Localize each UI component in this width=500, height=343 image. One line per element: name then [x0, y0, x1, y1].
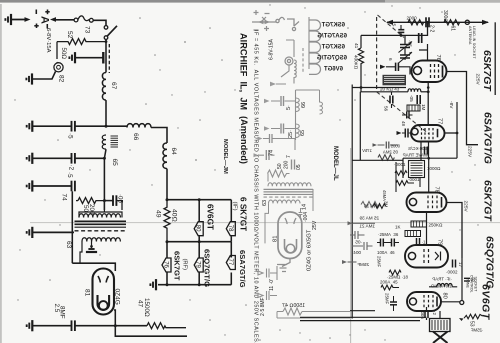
svg-text:41: 41 — [353, 43, 359, 49]
svg-text:LEAD-IN SOCKET: LEAD-IN SOCKET — [472, 26, 476, 59]
left column rails of RF section — [351, 85, 353, 319]
svg-text:64: 64 — [170, 148, 177, 156]
svg-text:78: 78 — [434, 187, 440, 193]
svg-text:79: 79 — [437, 239, 443, 245]
svg-text:45MA: 45MA — [382, 190, 387, 201]
svg-text:63: 63 — [262, 200, 268, 206]
svg-text:50: 50 — [82, 205, 89, 212]
svg-text:300Ω: 300Ω — [442, 10, 448, 22]
bleed transformer section — [263, 139, 295, 151]
cap 5 — [398, 29, 404, 31]
cap 56 — [389, 96, 391, 104]
svg-text:63: 63 — [65, 241, 72, 249]
svg-text:(RF): (RF) — [182, 259, 188, 271]
osc grid cap cluster left of tube 77 — [402, 132, 411, 134]
fuse lamp circle — [56, 42, 58, 59]
svg-text:·5: ·5 — [67, 133, 74, 139]
tube 77 — [411, 125, 445, 142]
svg-text:·25MA 36: ·25MA 36 — [378, 232, 399, 237]
svg-text:·2: ·2 — [68, 165, 75, 171]
svg-text:6SA7GT/G: 6SA7GT/G — [317, 34, 347, 40]
rail1: ground cap -5 — [27, 121, 33, 132]
svg-text:48: 48 — [401, 121, 406, 126]
svg-text:80: 80 — [442, 293, 448, 299]
svg-text:225V: 225V — [467, 146, 473, 158]
svg-text:2·2: 2·2 — [429, 25, 435, 32]
rail3: ground cap 74 — [27, 180, 33, 191]
svg-text:77: 77 — [227, 259, 233, 266]
bleed transformer wires — [265, 174, 313, 244]
wave trap bleed text — [403, 146, 428, 158]
svg-text:·02: ·02 — [471, 276, 476, 283]
svg-text:1500Ω 47: 1500Ω 47 — [282, 303, 305, 309]
svg-text:52: 52 — [66, 31, 73, 39]
resistor 41 400K vertical — [358, 35, 363, 87]
cap 0002 17 — [452, 260, 454, 268]
resistor cluster above tube 78 — [396, 181, 414, 186]
svg-text:MODEL—JL: MODEL—JL — [332, 146, 338, 181]
heater lower rail — [167, 241, 231, 243]
wire to ignition switch — [93, 20, 106, 25]
svg-text:53: 53 — [469, 321, 475, 327]
svg-text:1st AUDIO: 1st AUDIO — [430, 284, 452, 289]
svg-text:76: 76 — [162, 261, 168, 268]
lower return rail — [115, 326, 187, 337]
arrow into A left — [25, 17, 31, 22]
bleed battery cluster — [252, 17, 294, 26]
svg-text:200: 200 — [88, 204, 95, 215]
svg-text:76: 76 — [435, 55, 441, 61]
svg-text:·1: ·1 — [422, 240, 426, 245]
svg-text:05: 05 — [296, 164, 302, 170]
svg-text:6SK7GT: 6SK7GT — [482, 180, 494, 222]
battery A plus-minus marks — [34, 10, 49, 29]
tuning trimmer cluster — [404, 35, 406, 60]
svg-text:200: 200 — [284, 160, 290, 169]
svg-text:65: 65 — [300, 130, 306, 136]
heater return rail — [167, 273, 231, 285]
svg-text:-8V: -8V — [448, 101, 454, 109]
svg-text:6SA7GT/G: 6SA7GT/G — [482, 112, 494, 164]
svg-text:79: 79 — [195, 261, 201, 268]
AVC + osc return lines — [352, 87, 406, 89]
connections around tube 80 — [427, 302, 460, 320]
bottom row flags — [167, 242, 231, 258]
tube 78 — [407, 193, 447, 213]
svg-text:·25MF: ·25MF — [470, 328, 483, 333]
tube 81 to bottom rail — [114, 310, 115, 326]
svg-text:·05: ·05 — [409, 95, 414, 102]
svg-text:25MF: 25MF — [357, 262, 369, 267]
svg-text:49: 49 — [155, 210, 162, 218]
svg-text:7: 7 — [286, 155, 292, 158]
svg-text:6SK7GT: 6SK7GT — [321, 45, 345, 51]
svg-text:ANTENNA: ANTENNA — [468, 26, 472, 45]
bottom rails right — [300, 311, 427, 321]
audio line to tube 81 — [72, 263, 115, 271]
cap -05 on osc drop — [418, 33, 420, 43]
svg-text:(Amended): (Amended) — [239, 116, 249, 164]
svg-text:·004: ·004 — [303, 212, 309, 222]
tube flag 76 RF — [162, 258, 171, 272]
antenna line — [387, 21, 488, 23]
cap 05 + resistor box below avc — [416, 95, 418, 104]
svg-text:6 SK7GT: 6 SK7GT — [239, 197, 248, 231]
svg-text:1MA 21: 1MA 21 — [359, 224, 375, 229]
svg-text:11 ·0': 11 ·0' — [269, 279, 275, 291]
svg-text:74: 74 — [61, 194, 68, 202]
bleed tube names mirrored — [317, 23, 347, 73]
coil 65 with core on vertical line — [102, 135, 106, 149]
svg-text:2·5 8MF: 2·5 8MF — [260, 297, 266, 316]
svg-text:6-8V·15A: 6-8V·15A — [45, 28, 51, 53]
svg-text:·05: ·05 — [355, 240, 362, 245]
tube 77 cathode stubs — [421, 142, 429, 161]
tube flag 77 — [226, 256, 235, 270]
tube 76 — [412, 61, 447, 83]
svg-text:400KΩ: 400KΩ — [354, 55, 359, 70]
svg-text:82: 82 — [58, 75, 65, 83]
25M .18 resistor — [389, 270, 401, 275]
svg-text:5·: 5· — [391, 24, 397, 29]
svg-text:6-8V-15A: 6-8V-15A — [269, 38, 275, 60]
svg-text:73: 73 — [84, 26, 91, 34]
IF transformer 1 — [409, 161, 425, 178]
svg-text:6SQ7GT/G: 6SQ7GT/G — [317, 56, 347, 62]
wire down to resistor rail — [105, 39, 107, 41]
crossing resistors (mostly bleed mixture) — [342, 202, 380, 265]
output choke coil — [437, 284, 452, 287]
svg-text:·005: ·005 — [420, 310, 425, 319]
switch blade — [104, 36, 108, 40]
svg-text:77: 77 — [437, 118, 443, 124]
svg-text:81: 81 — [273, 236, 279, 242]
resistor boxes between 78 and 79 — [426, 212, 428, 246]
svg-text:6SQ7GT/G: 6SQ7GT/G — [484, 236, 496, 289]
RF coil hatched box — [383, 75, 407, 86]
gang dashed box — [376, 17, 378, 92]
svg-text:50Ω: 50Ω — [60, 48, 67, 60]
tube 80 — [407, 292, 441, 311]
svg-text:250KΩ: 250KΩ — [429, 223, 444, 228]
bottom rail: ground cap 25 8MF — [27, 320, 33, 331]
svg-text:6SQ7GT/G: 6SQ7GT/G — [203, 249, 212, 287]
right edge rail — [494, 22, 496, 95]
resistor 50 200ohm — [78, 198, 104, 204]
svg-text:80: 80 — [195, 225, 201, 232]
svg-text:66: 66 — [301, 102, 307, 108]
-8V label + rail x457 — [456, 102, 458, 158]
svg-text:81: 81 — [84, 289, 91, 297]
svg-text:1M: 1M — [421, 104, 426, 111]
grid cap row y66.8 — [386, 67, 410, 75]
bleed rectifier tube — [278, 212, 302, 259]
speaker transformer — [430, 319, 451, 332]
svg-text:·2: ·2 — [432, 311, 437, 315]
svg-text:100A 46: 100A 46 — [377, 250, 395, 255]
bleed cap rows — [271, 101, 296, 129]
IF stage extras — [428, 158, 430, 192]
coil 66 on rail1 going right — [106, 125, 127, 127]
svg-text:6V6GT: 6V6GT — [324, 67, 343, 73]
svg-text:66: 66 — [132, 133, 139, 141]
ground rail4 — [27, 227, 33, 238]
svg-text:25MF: 25MF — [377, 256, 382, 268]
coil 64 vertical — [163, 143, 167, 169]
svg-text:A: A — [39, 16, 51, 24]
svg-text:200A 45: 200A 45 — [380, 280, 398, 285]
svg-text:56: 56 — [384, 106, 389, 112]
resistor 52 50ohm — [57, 39, 106, 45]
svg-text:2000: 2000 — [407, 16, 418, 21]
output cap 005 — [424, 311, 426, 318]
svg-text:·5: ·5 — [66, 172, 73, 178]
svg-text:25·: 25· — [288, 130, 294, 138]
wire down from switch junction — [105, 42, 107, 73]
rail2: ground cap -2 — [27, 153, 33, 164]
svg-text:·0001: ·0001 — [408, 177, 420, 182]
tube flag 80 — [198, 200, 200, 222]
secondary centre tap ground — [91, 242, 93, 249]
speaker cone X — [433, 332, 448, 343]
svg-text:8MF: 8MF — [59, 306, 66, 319]
svg-text:·IF· TRAP: ·IF· TRAP — [432, 277, 452, 282]
svg-text:6SK7GT: 6SK7GT — [173, 251, 182, 281]
antenna socket — [465, 20, 469, 24]
ground + wire to fuse — [26, 73, 32, 84]
svg-text:5·: 5· — [286, 105, 292, 110]
cap 05 — [104, 200, 112, 202]
svg-text:MODEL—JM: MODEL—JM — [222, 139, 228, 174]
svg-text:6V6GT: 6V6GT — [206, 204, 215, 230]
resistor 1500 47 — [147, 323, 186, 329]
svg-text:225V: 225V — [463, 201, 469, 213]
resistor 40ohm 49 vertical — [164, 200, 170, 242]
svg-text:004: 004 — [353, 250, 361, 255]
svg-text:225V: 225V — [475, 74, 481, 86]
plate wire to 225V rail — [447, 72, 479, 145]
svg-text:6SK7GT: 6SK7GT — [481, 50, 493, 92]
ground — [5, 14, 11, 25]
arrow into A right — [50, 17, 56, 22]
svg-text:40Ω: 40Ω — [171, 209, 178, 222]
heater top rail — [167, 199, 231, 201]
svg-text:25V: 25V — [312, 220, 318, 230]
coil 67 — [102, 73, 106, 101]
svg-text:47: 47 — [137, 300, 144, 308]
svg-text:·0002: ·0002 — [446, 270, 458, 275]
svg-text:(IF): (IF) — [232, 202, 238, 211]
svg-text:74: 74 — [269, 150, 275, 156]
svg-text:0Z4G: 0Z4G — [114, 289, 121, 305]
bleed resistor + rails — [283, 308, 302, 315]
bleed tube lineup flags — [308, 17, 310, 69]
svg-text:25MF: 25MF — [385, 293, 390, 305]
osc line y35.4 — [426, 21, 429, 24]
svg-text:3M: 3M — [384, 201, 389, 208]
svg-text:1K: 1K — [395, 225, 401, 230]
core lines — [75, 220, 127, 222]
svg-text:67: 67 — [110, 82, 117, 90]
top scan edge — [0, 0, 500, 3]
25MF cap — [390, 301, 397, 303]
bleed vertical with coils — [295, 90, 297, 140]
svg-text:6SK7GT: 6SK7GT — [321, 23, 345, 29]
svg-text:TONE: TONE — [466, 278, 470, 289]
tube flag 79 — [194, 258, 203, 272]
left small parts of RF section — [374, 204, 386, 209]
svg-text:0005: 0005 — [390, 144, 400, 149]
svg-text:05 2MA: 05 2MA — [383, 150, 398, 155]
tube 79 — [405, 245, 448, 268]
rectifier tube 81 — [93, 269, 115, 315]
shield dashed line — [108, 44, 110, 73]
switch 73 contact circles and squiggle — [74, 18, 78, 22]
wire from A to switch 73 — [55, 19, 74, 21]
wire cap74 down to audio line — [71, 191, 73, 263]
svg-text:6: 6 — [388, 58, 393, 61]
svg-text:65: 65 — [111, 159, 118, 167]
left scan edge — [0, 4, 2, 343]
svg-text:61: 61 — [450, 26, 456, 32]
resistor 2000 — [408, 20, 424, 25]
200A 45 resistor — [381, 285, 399, 290]
output transformer primary — [79, 214, 120, 218]
svg-text:25 MA 39: 25 MA 39 — [359, 216, 379, 221]
tube flag 78 — [230, 200, 232, 222]
wire — [11, 19, 28, 21]
bleed caps bottom — [258, 266, 277, 280]
resistor 300ohm 61 — [444, 20, 460, 25]
svg-text:6SA7GT/G: 6SA7GT/G — [238, 250, 247, 288]
plate wire 77 to rail — [445, 132, 458, 134]
spark plate capacitor — [69, 52, 75, 63]
fold crease vertical — [350, 148, 352, 343]
wire coil to rail1 — [105, 100, 107, 126]
fold crease horizontal — [30, 222, 500, 224]
svg-text:78: 78 — [227, 225, 233, 232]
bleed fuse area — [285, 57, 293, 65]
svg-text:·05: ·05 — [117, 194, 124, 204]
bottom line of osc stage — [403, 157, 457, 159]
svg-text:175V: 175V — [362, 148, 372, 153]
wire to coil 64 — [151, 128, 167, 144]
heater wire from coil 64 — [166, 169, 168, 200]
secondary — [82, 238, 120, 242]
bleed ground under tube — [277, 259, 290, 272]
series cap 2.2 — [425, 17, 427, 27]
svg-text:50: 50 — [277, 163, 283, 169]
svg-text:14: 14 — [302, 204, 308, 210]
svg-text:AIRCHIEF IL, JM: AIRCHIEF IL, JM — [239, 33, 249, 110]
svg-text:0Z4G or 6X5GT: 0Z4G or 6X5GT — [307, 229, 313, 271]
